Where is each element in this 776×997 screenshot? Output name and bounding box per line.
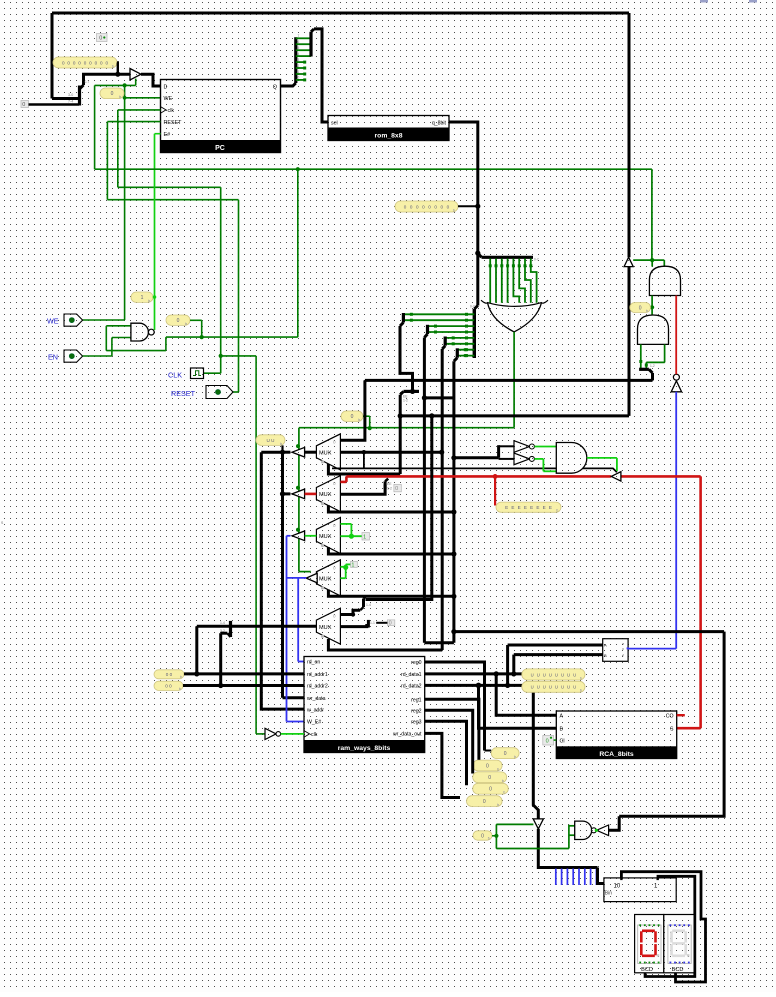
comparator U19 [603,639,629,662]
svg-text:0-7: 0-7 [470,305,475,309]
svg-text:BCD: BCD [672,967,684,973]
junction WE net b [123,96,127,100]
wire field B bus [423,338,426,643]
svg-text:E#: E# [164,132,171,138]
svg-text:MUX: MUX [319,534,332,540]
svg-text:b: b [497,803,499,807]
wire mux1 out black [305,451,317,454]
wire comp branch rail [454,630,724,633]
wire mux output column [261,452,290,698]
mux U11 MUX3 [316,518,340,554]
svg-text:U U: U U [267,438,275,443]
svg-text:0: 0 [333,523,336,528]
adder RCA_8bits [556,711,676,759]
svg-text:MUX: MUX [319,451,332,457]
svg-text:b: b [453,208,455,212]
svg-text:RESET: RESET [164,120,183,126]
rom block rom_8x8 [328,116,449,141]
junction enable t3 [296,528,300,532]
wire and out to tristate enable [587,458,617,471]
splitter S10 A split [400,391,419,402]
not gate U17 [514,453,534,465]
svg-text:reg2: reg2 [411,708,421,714]
svg-text:reg3: reg3 [411,720,421,726]
svg-text:rd_addr2: rd_addr2 [307,684,328,690]
wire compB riser [512,655,515,674]
value oval 0 reg0 [491,748,519,759]
junction mux4 const [343,565,348,570]
wire clk inverted bright [281,733,304,735]
mux U9 MUX1 [316,434,340,470]
wire CO stub red [677,714,685,716]
wire wr_data_out [425,733,460,797]
mux U10 MUX2 [316,476,340,512]
wire const to glyph [376,622,387,624]
junction mux1 in1 a [362,450,366,454]
seven segment display tens [664,915,694,974]
svg-text:CO: CO [666,714,674,720]
svg-text:b: b [148,299,150,303]
svg-text:0: 0 [333,565,336,570]
wire AND2 to AND1 [651,296,653,316]
value oval UUUUUUUU rd1 [522,669,585,681]
wire PC Q out [281,83,296,86]
value oval 1 E# [131,292,153,303]
svg-text:0: 0 [489,787,492,793]
junction mux col 2 [280,491,285,496]
value oval 000000000 [53,57,117,68]
svg-text:WE: WE [47,317,59,326]
junction rd1 a [494,671,499,676]
svg-text:S: S [670,727,674,733]
wire rom q bus [449,122,478,306]
wire A down to sel1 [399,395,402,474]
svg-text:0: 0 [333,439,336,444]
junction mux3 const [349,534,354,539]
svg-text:rd_data1: rd_data1 [401,672,422,678]
svg-text:1: 1 [298,70,300,74]
splitter S1 merge to D [68,74,130,105]
svg-text:MUX: MUX [319,577,332,583]
value oval 0 WE [100,88,124,99]
junction rd_addr2 [218,683,223,688]
value oval 0 wrout [467,796,503,807]
svg-text:B: B [604,653,607,658]
svg-text:0 0: 0 0 [166,672,173,677]
splitter S12 mux2in1 [385,479,392,491]
svg-text:b: b [488,837,490,841]
wire splitter stub 3-0 [52,97,79,100]
svg-text:1-2: 1-2 [403,399,408,403]
svg-text:0: 0 [389,621,392,627]
wire display enable green [496,824,574,848]
splitter S16 display comb [551,868,604,886]
junction sel3 D [451,551,456,556]
svg-text:b: b [514,755,516,759]
splitter field stubs [403,313,474,357]
wire sel2 MUX2 [328,505,454,512]
splitter S2 Q 8bit [296,34,311,83]
wire D split to inverters [454,445,514,459]
splitter S4 rom to OR [478,253,539,303]
wire comp eq out blue [628,648,676,650]
value oval UU muxout [256,435,285,446]
svg-text:clk: clk [168,108,175,114]
svg-text:D: D [164,84,168,90]
svg-text:E E E E E E E E: E E E E E E E E [505,505,552,510]
svg-text:b: b [580,689,582,693]
svg-text:0: 0 [333,614,336,619]
wire sel4 MUX4 [328,590,454,597]
constant 0 mux2 [394,484,401,492]
svg-text:1-2: 1-2 [387,487,392,491]
svg-text:0 0 0 0 0 0 0 0 0: 0 0 0 0 0 0 0 0 0 [62,60,109,65]
wire oval stub WE net [190,319,202,321]
wire oval stub rom [458,205,478,207]
svg-text:CLK: CLK [168,371,182,380]
junction AND out node [650,258,654,262]
wire mux3 const inputs [340,524,362,536]
register PC [161,80,281,153]
wire sel3 MUX3 [328,547,454,554]
svg-text:<: < [622,653,624,657]
value oval 0 WE net [166,315,190,326]
constant 1 mux3 [362,533,369,541]
svg-text:W_E#: W_E# [307,720,321,726]
svg-text:4: 4 [298,52,300,56]
svg-text:1: 1 [141,295,144,301]
tristate T4 mux4 [306,573,317,583]
constant 0 box (4-bit) [21,101,29,109]
seven segment display ones [635,915,664,974]
wire red not out to AND1 [675,296,677,375]
junction rd1 b [511,671,516,676]
svg-text:b: b [179,687,181,691]
junction D node [115,72,120,77]
svg-text:rd_data2: rd_data2 [401,684,422,690]
wire rd_addr1 line [184,672,304,675]
svg-text:sel: sel [331,120,338,126]
wire w_addr column [261,452,304,709]
wire mux3 out bright [305,535,317,537]
svg-text:U U U U U U U U: U U U U U U U U [531,672,577,677]
wire mux4 const inputs [340,564,350,578]
value oval 0 reg3 [473,783,509,794]
junction rd_addr1 [194,671,199,676]
svg-text:0: 0 [481,833,484,839]
tristate T3 mux3 [292,531,305,541]
svg-text:1-4: 1-4 [220,621,225,625]
value oval UUUUUUUU rd2 [522,681,585,692]
value oval 0 enable [341,411,363,422]
svg-text:1-1: 1-1 [370,621,375,625]
svg-text:b: b [112,64,114,68]
svg-text:Q: Q [273,84,277,90]
wire RESET net from PC [107,122,238,392]
value oval 00000000 rom [395,201,458,212]
wire oval stub dispen [492,835,496,837]
nand gate U3 [131,323,154,341]
svg-text:q_8bit: q_8bit [432,120,447,126]
wire RCA B feed [479,685,557,728]
wire enable AND net [633,169,664,266]
wire WE long rail y169 [95,168,652,170]
junction display enable oval [494,834,498,838]
svg-text:U U U U U U U U: U U U U U U U U [531,685,577,690]
wire oval stub muxout [281,445,283,452]
wire to rom sel [314,29,328,122]
junction A y415 [398,413,403,418]
splitter S7 field B [424,325,427,338]
constant 1 mux4 [351,561,358,568]
svg-text:A: A [560,714,564,720]
value oval 0 reg1 [473,760,502,771]
wire D-bus left drop [51,13,54,99]
junction A split in [410,389,415,394]
splitter S8 field C [442,337,445,350]
svg-text:7-4: 7-4 [68,100,73,104]
svg-text:3-0: 3-0 [68,93,73,97]
wire D-bus top rail [52,12,629,15]
svg-text:b: b [185,322,187,326]
svg-text:MUX: MUX [319,625,332,631]
svg-text:CI: CI [560,738,565,744]
wire bus bottom corner [424,641,454,644]
wire buffer out to PC D [141,74,161,86]
wire right loop down [619,632,724,817]
wire long rail y415.9 [400,414,629,417]
svg-text:b: b [497,767,499,771]
wire tri6 out black [609,816,620,830]
wire B rail y397.9 [424,396,454,399]
svg-text:0-7: 0-7 [534,258,539,262]
svg-text:b: b [502,779,504,783]
junction B corner [422,395,427,400]
not gate U16 [514,441,534,453]
splitter S13 mux5 in0 [360,597,371,611]
wire E# bright green net [155,134,161,330]
svg-text:RCA_8bits: RCA_8bits [599,751,634,758]
svg-text:0: 0 [488,775,491,781]
svg-text:0: 0 [546,738,549,744]
top edge clipped marks [700,0,757,3]
tristate T1 mux1 [292,447,305,457]
wire field C bus [441,349,444,650]
value oval 0 dispen [473,831,492,841]
wire mux5 out to addr split [197,625,317,628]
svg-text:0 0: 0 0 [165,684,172,689]
and gate up U7 [638,315,669,344]
junction comp branch [451,629,456,634]
svg-text:b: b [503,791,505,795]
junction D inv branch [451,455,456,460]
wire field D bus [452,361,455,643]
constant 0 CI [543,736,554,746]
wire field A bus [400,326,413,391]
not gate U20 clk [265,728,281,739]
svg-text:b: b [580,676,582,680]
junction enable t2 [296,486,300,490]
junction enable oval [368,426,372,430]
tristate T5 red line [611,472,621,481]
wire D bus below tristate [628,267,631,416]
tristate T2 mux2 [292,489,305,499]
junction enable t1 [296,444,300,448]
svg-text:>: > [622,642,624,646]
svg-text:0: 0 [351,414,354,420]
wire inv1 out bright [534,446,556,448]
svg-text:0: 0 [333,481,336,486]
junction E# oval [153,295,157,299]
svg-text:0: 0 [99,36,102,42]
wire WE net around PC [83,85,161,320]
junction red oval [493,474,498,479]
wire RCA A feed [496,674,556,715]
wire bcd tens route [621,872,705,982]
svg-text:BCD: BCD [641,967,653,973]
wire red S feedback [340,476,700,728]
constant 0 mux5 [387,620,394,627]
mux U13 MUX5 [316,608,340,644]
splitter S5 main bar [470,305,478,359]
wire red oval stub [494,476,496,505]
not gate up U8 [671,374,681,392]
nand gate U22 [575,821,597,839]
tristate buffer U2 to PC D [130,69,141,80]
svg-text:1: 1 [363,534,366,540]
value oval EEEEEEEE [496,502,561,513]
svg-text:0: 0 [486,763,489,769]
wire rd_addr2 drop [221,632,228,635]
svg-text:3: 3 [298,58,300,62]
wire D writeback rail y380.4 [365,379,653,382]
svg-text:reg0: reg0 [411,660,421,666]
svg-text:0: 0 [395,486,398,492]
junction nand tri node [595,829,598,832]
svg-text:0: 0 [177,318,180,324]
svg-text:rd_en: rd_en [307,660,320,666]
wire reg0 out [425,662,485,751]
svg-text:PC: PC [215,145,225,152]
wire oval stub enable [363,415,370,417]
wire bcd ones route [645,876,695,976]
splitter S9 field D [454,348,457,361]
splitter S6 field A [400,313,403,326]
junction rd2 b [505,683,510,688]
svg-text:wr_data: wr_data [307,696,326,702]
value oval 00 rdaddr1 [154,670,184,679]
wire compA riser [506,645,509,685]
splitter S11 and2 bits [639,364,655,380]
svg-text:6: 6 [298,40,300,44]
svg-text:0: 0 [22,102,25,108]
wire reg0 oval stub [485,750,492,752]
svg-text:b: b [358,418,360,422]
svg-text:rd_addr1: rd_addr1 [307,672,328,678]
svg-text:clk: clk [311,732,318,738]
value oval 00 rdaddr2 [154,681,183,691]
and gate up U6 [649,266,680,295]
svg-text:reg1: reg1 [411,697,421,703]
junction riser x431 [429,413,434,418]
svg-text:Bin: Bin [605,891,612,897]
probe 0 top [97,34,108,42]
junction rom bus oval [475,204,480,209]
svg-text:b: b [556,509,558,513]
wire reg2 out [425,710,473,773]
junction mux5 in0 [351,612,355,616]
tristate T6 left [597,825,609,836]
wire mux1 in1 [340,451,441,454]
wire mux2 in1 [340,485,385,495]
svg-text:RESET: RESET [171,389,196,398]
svg-text:b: b [180,675,182,679]
svg-text:7: 7 [298,34,300,38]
svg-text:0: 0 [639,305,642,311]
svg-text:MUX: MUX [319,492,332,498]
wire mux1 in1 drop [363,452,365,468]
junction sel2 D [451,509,456,514]
wire inv2 out bright [534,459,556,471]
wire compB line [514,653,603,656]
wire compA line [508,644,603,647]
wire sel1 MUX1 [328,464,400,475]
wire rd_data2 line [425,684,534,687]
wire reg1 out [425,699,479,762]
tristate buffer down U21 [533,819,543,829]
wire mux1 in0 [340,380,365,440]
junction AND2 out [650,305,654,309]
wire CI const [554,739,557,741]
wire mux2 out red [305,493,317,496]
junction WE net a [123,83,127,87]
junction mux1 in1 c [439,450,444,455]
svg-text:0 0 0 0 0 0 0 0: 0 0 0 0 0 0 0 0 [404,204,450,209]
wire rd_addr1 drop [195,626,198,674]
svg-text:b: b [119,95,121,99]
mux U12 MUX4 [316,560,340,596]
wire blue mux bus [287,536,307,722]
junction rom bus to OR splitter [475,251,480,256]
svg-text:5: 5 [298,46,300,50]
svg-text:1-4: 1-4 [366,603,371,607]
wire reg3 out [425,721,467,785]
svg-text:A: A [604,643,607,648]
wire T5 enable rail [332,468,617,472]
svg-text:b: b [280,442,282,446]
wire blue not input [675,392,677,649]
svg-text:0: 0 [504,751,507,757]
svg-text:w_addr: w_addr [307,707,324,713]
svg-text:EE: EE [387,482,392,486]
svg-text:b: b [646,309,648,313]
svg-text:1: 1 [351,562,354,568]
svg-text:2: 2 [298,64,300,68]
svg-text:0: 0 [483,799,486,805]
wire CLK net from PC [118,110,265,734]
junction CLK net [219,354,223,358]
wire rd_data1 line [425,672,560,675]
junction WE rail [296,167,300,171]
svg-text:ram_ways_8bits: ram_ways_8bits [338,745,391,752]
splitter S3 merge 4bit [311,29,314,57]
tristate buffer up U5 [624,257,633,266]
svg-text:0: 0 [298,76,300,80]
junction mux col 1 [280,450,285,455]
splitter S15 addr [220,621,231,637]
wire rd_addr2 line [183,684,304,687]
and gate U18 [556,443,587,474]
